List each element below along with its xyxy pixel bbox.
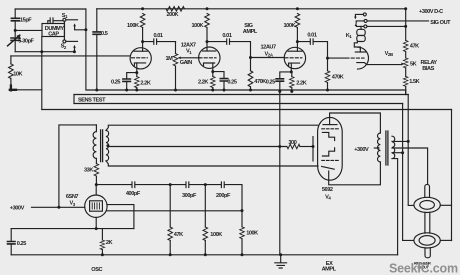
wire S1-S2 column xyxy=(63,21,65,40)
capacitor 15pF xyxy=(11,18,19,21)
svg-text:S2: S2 xyxy=(61,44,67,50)
svg-text:1M: 1M xyxy=(166,56,174,62)
svg-text:200pF: 200pF xyxy=(216,193,231,199)
wire left column to y51.7 xyxy=(14,40,16,51)
svg-text:AMPL: AMPL xyxy=(243,29,258,35)
wire rail to SENS-top connector xyxy=(405,90,407,95)
jack 1 inner xyxy=(420,201,435,210)
relay contact 1 xyxy=(363,13,366,16)
oscillator transformer T1 secondary xyxy=(106,130,109,161)
svg-text:OSC: OSC xyxy=(91,267,102,273)
wire SENS bus bottom L2 xyxy=(74,103,403,105)
svg-text:1.5K: 1.5K xyxy=(409,79,419,85)
svg-text:0.5: 0.5 xyxy=(101,31,108,37)
jack 2 bottom barrel xyxy=(425,248,430,258)
node rail stage2 xyxy=(206,7,209,10)
jack 2 inner xyxy=(419,236,435,246)
node ground rail 0.25b xyxy=(223,89,226,92)
capacitor dummy top symbol xyxy=(48,18,63,24)
node ground rail x96.8 xyxy=(95,89,98,92)
svg-text:47K: 47K xyxy=(174,232,183,238)
node plate2 xyxy=(206,40,209,43)
svg-text:SeekIC.com: SeekIC.com xyxy=(389,261,458,275)
svg-text:0.25: 0.25 xyxy=(111,80,120,86)
node rail stage3 xyxy=(296,7,299,10)
capacitor 0.01 #3 xyxy=(297,39,327,58)
jack 1 (phono) outer xyxy=(414,197,440,212)
node plate1 xyxy=(141,40,144,43)
wire 0.5 to ground rail xyxy=(96,34,98,90)
dummy cap box xyxy=(42,24,65,37)
svg-text:6SN7: 6SN7 xyxy=(66,194,79,200)
wire ground rail xyxy=(86,89,406,91)
svg-text:0.25: 0.25 xyxy=(266,80,275,86)
capacitor 0.25 (V2A cathode) xyxy=(280,72,292,79)
wire S1 fixed line xyxy=(66,19,78,21)
oscillator transformer T1 primary xyxy=(95,125,97,132)
svg-text:12AU7: 12AU7 xyxy=(261,45,277,51)
node V3 cathode xyxy=(95,227,98,230)
wire +300V feed (bottom left) xyxy=(32,206,85,208)
resistor 33K xyxy=(95,158,97,163)
node +300V junction xyxy=(57,206,60,209)
svg-text:470K: 470K xyxy=(332,75,344,81)
svg-text:5K: 5K xyxy=(410,62,417,68)
wire dummy bus L3 xyxy=(42,109,452,111)
node V3 plate xyxy=(95,183,98,186)
svg-text:0.25: 0.25 xyxy=(17,241,26,247)
relay K1 coil xyxy=(357,29,365,35)
node rail stage1 xyxy=(141,7,144,10)
node ground rail 2.2Kc xyxy=(290,90,293,93)
svg-text:V1: V1 xyxy=(186,49,192,55)
capacitor 0.5 xyxy=(93,32,100,34)
svg-text:+300V: +300V xyxy=(354,147,369,153)
resistor 100K #3 xyxy=(295,14,300,28)
node grid V2B xyxy=(326,57,329,60)
oscillator transformer T1 core xyxy=(101,130,103,162)
node cathode V1b xyxy=(211,70,214,73)
node caps column xyxy=(14,29,17,32)
tube V3 (6SN7) xyxy=(85,195,107,217)
svg-text:300: 300 xyxy=(288,140,296,146)
svg-text:0.01: 0.01 xyxy=(222,33,231,39)
resistor 47K (osc) xyxy=(169,185,171,227)
wire T2 tap2 to probe xyxy=(392,148,428,184)
wire V1a grid line xyxy=(11,55,130,57)
output transformer T2 core xyxy=(386,131,388,165)
relay contact 3 line to divider xyxy=(364,25,367,28)
wire V2B cathode xyxy=(357,63,402,65)
capacitor 0.25 (V1b cathode) xyxy=(213,72,224,79)
node grid V2A xyxy=(249,56,252,59)
wire main top rail xyxy=(97,8,406,10)
capacitor 200pF xyxy=(205,182,242,211)
svg-text:BIAS: BIAS xyxy=(422,66,434,72)
node T1 mid tap xyxy=(106,144,109,147)
wire L2 right vertical to jack2 xyxy=(403,104,414,241)
wire L3 right vertical xyxy=(451,110,453,241)
capacitor 300pF xyxy=(170,182,205,188)
wire V4 plate top to output transformer xyxy=(330,113,381,133)
wire V3 cathode line xyxy=(11,228,134,230)
capacitor 0.25 (V1a cathode) xyxy=(127,73,137,79)
svg-text:100K: 100K xyxy=(246,231,258,237)
svg-text:100K: 100K xyxy=(210,232,222,238)
wire jack2 right stub xyxy=(440,239,451,241)
capacitor 0.01 #1 xyxy=(143,39,176,44)
wire SENS box left edge xyxy=(73,95,75,104)
node bottom rail 100K xyxy=(204,253,207,256)
svg-text:AMPL: AMPL xyxy=(322,267,337,273)
wire V2B plate staircase to relay coil xyxy=(354,42,360,49)
wire top-left box top edge xyxy=(15,8,86,10)
svg-text:K1: K1 xyxy=(346,33,353,39)
svg-text:47K: 47K xyxy=(410,44,419,50)
svg-text:V2B: V2B xyxy=(385,51,393,57)
svg-text:15pF: 15pF xyxy=(20,18,32,24)
svg-text:470K: 470K xyxy=(254,79,266,85)
node 300 line x279.8 xyxy=(278,145,281,148)
node ground rail pot xyxy=(174,89,177,92)
node ground rail 470K2 xyxy=(326,89,329,92)
resistor 300 xyxy=(287,144,300,149)
svg-text:0.01: 0.01 xyxy=(307,32,316,38)
relay contact 2 / SIG OUT line xyxy=(364,19,367,22)
probe stem xyxy=(425,184,430,197)
wire dummy bus vertical x41.8 xyxy=(41,37,43,110)
wire L1 right vertical to jack1 xyxy=(408,95,414,206)
svg-text:V3: V3 xyxy=(70,201,76,207)
wire SENS bus top L1 xyxy=(74,94,408,96)
capacitor 5-30pF (variable, arrow) xyxy=(8,35,20,46)
resistor 2.2K (V1a) xyxy=(136,73,138,77)
node caps line 47K xyxy=(169,183,172,186)
tube V1 first half (12AX7) xyxy=(130,48,151,69)
resistor 2K xyxy=(101,229,103,240)
svg-text:2.2K: 2.2K xyxy=(140,81,150,87)
tube V2B (half envelope) xyxy=(358,47,369,69)
svg-text:GAIN: GAIN xyxy=(180,60,193,66)
tube V4 (5692) envelope xyxy=(318,117,343,180)
svg-text:10K: 10K xyxy=(13,71,22,77)
svg-text:2.2K: 2.2K xyxy=(198,80,208,86)
wire +300V divider vertical xyxy=(405,9,407,41)
resistor 100K #1 xyxy=(140,14,145,28)
node cathode V2A xyxy=(290,70,293,73)
wire dummy-cap tap y30.4 xyxy=(15,29,42,31)
svg-text:+300V: +300V xyxy=(10,206,25,212)
switch S2 contact xyxy=(63,40,66,43)
svg-text:100K: 100K xyxy=(284,23,296,29)
wire long vertical x279.8 to bottom rail xyxy=(279,91,281,254)
wire T2 tap4 ground return xyxy=(392,159,398,255)
svg-text:0.25: 0.25 xyxy=(227,80,236,86)
svg-text:2K: 2K xyxy=(106,240,113,246)
svg-text:5692: 5692 xyxy=(322,187,333,193)
wire T2 tap3 xyxy=(392,152,403,154)
node ground rail 0.25a xyxy=(125,89,128,92)
svg-text:200K: 200K xyxy=(167,12,179,18)
node line51.7 x41.8 xyxy=(40,50,43,53)
node T2 tap3 xyxy=(401,151,404,154)
switch S1 arm arrow xyxy=(75,25,86,30)
node bottom rail 100K2 xyxy=(241,253,244,256)
wire bottom ground rail xyxy=(11,254,397,256)
capacitor 400pF line xyxy=(96,182,170,188)
resistor 100K #2 xyxy=(205,14,210,28)
resistor 470K #1 xyxy=(250,58,252,71)
wire +300V arrow to T2 xyxy=(374,147,378,149)
node bottom rail 2K xyxy=(101,253,104,256)
resistor 10K xyxy=(10,56,12,64)
ground symbol xyxy=(280,255,282,263)
wire vertical x58.9 to transformer primary xyxy=(59,125,97,207)
svg-text:V4: V4 xyxy=(325,194,331,200)
node caps line 100K xyxy=(204,183,207,186)
node T2 tap1 xyxy=(407,140,410,143)
potentiometer 5K xyxy=(403,58,408,68)
wire V4 grid bracket xyxy=(312,137,314,161)
node ground rail 2.2Ka xyxy=(135,89,138,92)
output transformer T2 secondary xyxy=(392,136,395,158)
node divider contact3 xyxy=(404,25,407,28)
svg-text:CAP: CAP xyxy=(48,32,59,38)
wire xyxy=(14,21,16,37)
svg-text:SIG OUT: SIG OUT xyxy=(430,20,451,26)
capacitor 0.25 (osc) xyxy=(10,229,12,242)
svg-text:400pF: 400pF xyxy=(126,191,141,197)
node rail right xyxy=(404,7,407,10)
node dots xyxy=(14,7,410,256)
wire secondary mid tap, 300 ohm to V4 xyxy=(108,146,287,148)
node ground rail 2.2Kb xyxy=(211,89,214,92)
tube V4 internals xyxy=(323,124,337,126)
switch S1 contact xyxy=(63,18,66,21)
node line51.7 x74.4 xyxy=(73,50,76,53)
svg-text:33K: 33K xyxy=(84,167,93,173)
wire T2 tap1 xyxy=(392,140,408,142)
node plate3 xyxy=(296,40,299,43)
node lower line 100K2 xyxy=(241,209,244,212)
wire node line y51.7 xyxy=(15,51,74,53)
wire jack1 right stub xyxy=(440,204,451,206)
potentiometer 1M GAIN xyxy=(175,42,177,54)
resistor 2.2K (V1b) xyxy=(212,72,214,77)
svg-text:S1: S1 xyxy=(62,13,68,19)
wire secondary bottom tap to V4 xyxy=(106,161,318,166)
svg-text:100K: 100K xyxy=(192,23,204,29)
resistor 47K (divider) xyxy=(403,40,408,51)
switch S2 arm arrow xyxy=(74,47,76,52)
svg-text:V2A: V2A xyxy=(265,51,274,57)
node box edge S1 arm xyxy=(84,28,87,31)
resistor 470K #2 xyxy=(327,58,329,71)
resistor 2.2K (V2A) xyxy=(291,72,293,77)
svg-text:2.2K: 2.2K xyxy=(296,81,306,87)
svg-text:300pF: 300pF xyxy=(182,193,197,199)
wire left column upper xyxy=(14,9,16,17)
wire V3 lower line to 100K xyxy=(107,210,242,212)
wire V2A grid xyxy=(251,57,285,59)
node V4 bracket xyxy=(312,145,315,148)
node bottom rail 47K xyxy=(169,253,172,256)
resistor 100K (osc 2) xyxy=(241,211,243,227)
svg-text:0.01: 0.01 xyxy=(154,33,163,39)
wire V2B grid xyxy=(329,57,345,59)
wire S2 fixed line xyxy=(66,40,78,42)
resistor 100K (osc 1) xyxy=(204,185,206,227)
node ground rail 470K1 xyxy=(249,89,252,92)
output transformer T2 primary xyxy=(378,133,381,162)
node cathode V1a xyxy=(135,71,138,74)
resistor 1.5K xyxy=(403,76,408,86)
tube V1 second half xyxy=(199,47,220,68)
node ground rail 0.25c xyxy=(278,90,281,93)
svg-text:+300V D-C: +300V D-C xyxy=(419,9,443,15)
svg-text:100K: 100K xyxy=(127,23,139,29)
capacitor 0.01 #2 xyxy=(207,39,251,58)
resistor 200K (on rail) xyxy=(166,7,185,12)
svg-text:5-30pF: 5-30pF xyxy=(18,38,34,44)
wire V3 feedback box xyxy=(107,205,134,229)
node bottom rail ground xyxy=(279,253,282,256)
jack 2 outer xyxy=(414,233,440,248)
wire V4 plate bottom to output transformer xyxy=(329,162,381,185)
svg-text:SENS TEST: SENS TEST xyxy=(78,97,106,103)
tube V2A (12AU7) xyxy=(284,47,305,68)
wire top-left box right edge x85.9 xyxy=(85,9,87,90)
jack barrel between xyxy=(425,212,430,233)
wire secondary top tap to V4 grid1 xyxy=(106,125,318,130)
wire rail left corner down xyxy=(96,9,98,31)
